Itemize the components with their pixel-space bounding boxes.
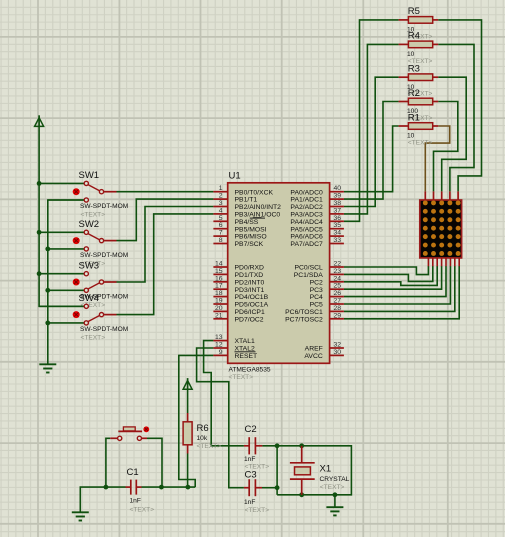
svg-text:<TEXT>: <TEXT>: [320, 484, 345, 491]
svg-text:PB1/T1: PB1/T1: [235, 197, 258, 204]
svg-text:27: 27: [334, 298, 342, 305]
svg-text:PC2: PC2: [310, 279, 323, 286]
svg-text:SW4: SW4: [79, 293, 100, 304]
svg-text:PC1/SDA: PC1/SDA: [294, 272, 324, 279]
svg-text:AREF: AREF: [305, 346, 323, 353]
svg-text:RESET: RESET: [235, 353, 258, 360]
svg-text:17: 17: [215, 283, 223, 290]
svg-text:9: 9: [219, 349, 223, 356]
svg-text:21: 21: [215, 312, 223, 319]
svg-text:PB7/SCK: PB7/SCK: [235, 241, 264, 248]
svg-text:PB2/AIN0/INT2: PB2/AIN0/INT2: [235, 204, 282, 211]
svg-text:R3: R3: [408, 64, 420, 75]
svg-text:25: 25: [334, 283, 342, 290]
svg-text:C3: C3: [245, 469, 257, 480]
svg-text:20: 20: [215, 305, 223, 312]
svg-text:R2: R2: [408, 88, 420, 99]
svg-text:AVCC: AVCC: [304, 353, 322, 360]
svg-text:U1: U1: [229, 170, 241, 181]
svg-text:PC3: PC3: [310, 287, 323, 294]
svg-text:10k: 10k: [197, 435, 208, 442]
svg-text:26: 26: [334, 290, 342, 297]
svg-text:3: 3: [219, 200, 223, 207]
svg-text:16: 16: [215, 275, 223, 282]
svg-text:PA7/ADC7: PA7/ADC7: [290, 241, 323, 248]
svg-text:PC7/TOSC2: PC7/TOSC2: [285, 316, 323, 323]
svg-text:36: 36: [334, 215, 342, 222]
svg-text:18: 18: [215, 290, 223, 297]
svg-text:2: 2: [219, 193, 223, 200]
svg-text:<TEXT>: <TEXT>: [197, 443, 222, 450]
svg-text:29: 29: [334, 312, 342, 319]
svg-text:PD7/OC2: PD7/OC2: [235, 316, 264, 323]
svg-text:39: 39: [334, 193, 342, 200]
svg-text:33: 33: [334, 237, 342, 244]
svg-text:PA2/ADC2: PA2/ADC2: [290, 204, 323, 211]
svg-text:PB0/T0/XCK: PB0/T0/XCK: [235, 189, 274, 196]
svg-text:<TEXT>: <TEXT>: [130, 507, 155, 514]
svg-text:37: 37: [334, 207, 342, 214]
svg-text:32: 32: [334, 342, 342, 349]
svg-text:24: 24: [334, 275, 342, 282]
svg-text:XTAL1: XTAL1: [235, 338, 255, 345]
svg-text:19: 19: [215, 298, 223, 305]
svg-text:PD3/INT1: PD3/INT1: [235, 287, 265, 294]
svg-text:PA1/ADC1: PA1/ADC1: [290, 197, 323, 204]
svg-text:PD0/RXD: PD0/RXD: [235, 265, 265, 272]
svg-text:SW-SPDT-MOM: SW-SPDT-MOM: [80, 203, 128, 210]
svg-text:ATMEGA8535: ATMEGA8535: [229, 367, 271, 374]
svg-text:PD5/OC1A: PD5/OC1A: [235, 302, 269, 309]
svg-text:PA6/ADC6: PA6/ADC6: [290, 234, 323, 241]
svg-text:PC4: PC4: [310, 294, 323, 301]
svg-text:30: 30: [334, 349, 342, 356]
svg-text:PC5: PC5: [310, 302, 323, 309]
svg-text:SW-SPDT-MOM: SW-SPDT-MOM: [80, 252, 128, 259]
svg-text:<TEXT>: <TEXT>: [229, 374, 254, 381]
svg-text:14: 14: [215, 261, 223, 268]
svg-text:SW-SPDT-MOM: SW-SPDT-MOM: [80, 326, 128, 333]
svg-text:1: 1: [219, 185, 223, 192]
svg-text:PC0/SCL: PC0/SCL: [294, 265, 323, 272]
svg-text:X1: X1: [320, 464, 332, 475]
svg-text:1nF: 1nF: [244, 499, 255, 506]
svg-text:<TEXT>: <TEXT>: [245, 507, 270, 514]
svg-text:6: 6: [219, 222, 223, 229]
svg-text:13: 13: [215, 334, 223, 341]
svg-text:PB4/SS: PB4/SS: [235, 219, 259, 226]
svg-text:7: 7: [219, 230, 223, 237]
svg-text:R4: R4: [408, 31, 420, 42]
svg-text:1nF: 1nF: [130, 498, 141, 505]
svg-text:PB6/MISO: PB6/MISO: [235, 234, 267, 241]
svg-text:5: 5: [219, 215, 223, 222]
svg-text:40: 40: [334, 185, 342, 192]
svg-text:34: 34: [334, 230, 342, 237]
svg-text:12: 12: [215, 342, 223, 349]
svg-text:C1: C1: [127, 467, 139, 478]
svg-text:C2: C2: [245, 424, 257, 435]
svg-text:1nF: 1nF: [244, 456, 255, 463]
svg-text:SW2: SW2: [79, 219, 100, 230]
svg-text:4: 4: [219, 207, 223, 214]
svg-text:CRYSTAL: CRYSTAL: [320, 476, 350, 483]
svg-text:PD6/ICP1: PD6/ICP1: [235, 309, 265, 316]
svg-text:PA5/ADC5: PA5/ADC5: [290, 226, 323, 233]
svg-text:R5: R5: [408, 6, 420, 17]
svg-text:PD1/TXD: PD1/TXD: [235, 272, 264, 279]
svg-text:35: 35: [334, 222, 342, 229]
svg-text:28: 28: [334, 305, 342, 312]
svg-text:PA4/ADC4: PA4/ADC4: [290, 219, 323, 226]
svg-text:R6: R6: [197, 423, 209, 434]
svg-text:PA3/ADC3: PA3/ADC3: [290, 212, 323, 219]
svg-text:SW3: SW3: [79, 260, 100, 271]
svg-text:38: 38: [334, 200, 342, 207]
svg-text:PC6/TOSC1: PC6/TOSC1: [285, 309, 323, 316]
svg-text:R1: R1: [408, 112, 420, 123]
svg-text:SW1: SW1: [79, 170, 100, 181]
svg-text:<TEXT>: <TEXT>: [81, 212, 106, 219]
svg-text:15: 15: [215, 268, 223, 275]
svg-text:PA0/ADC0: PA0/ADC0: [290, 189, 323, 196]
svg-text:23: 23: [334, 268, 342, 275]
svg-text:PD4/OC1B: PD4/OC1B: [235, 294, 269, 301]
svg-text:<TEXT>: <TEXT>: [408, 140, 433, 147]
svg-text:<TEXT>: <TEXT>: [81, 335, 106, 342]
svg-text:PD2/INT0: PD2/INT0: [235, 279, 265, 286]
svg-text:22: 22: [334, 261, 342, 268]
svg-text:PB5/MOSI: PB5/MOSI: [235, 226, 267, 233]
svg-text:8: 8: [219, 237, 223, 244]
